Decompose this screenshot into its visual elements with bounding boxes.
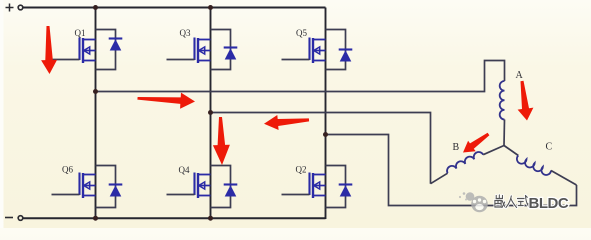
wire: phase A from Q1/Q6 node to winding A	[96, 61, 505, 92]
wire: phase C from Q5/Q2 node to winding C	[326, 135, 577, 206]
wire: winding B to star point	[483, 146, 504, 155]
wire: positive DC rail (top)	[23, 7, 326, 9]
svg-text:Q3: Q3	[180, 28, 191, 38]
junction dot phase C node	[323, 132, 328, 137]
wire: winding B outer lead	[431, 173, 448, 184]
wire: winding C outer lead	[551, 171, 577, 186]
red current arrow (right, along phase A wire)	[137, 93, 195, 109]
diode branch of Q1 (freewheeling diode)	[96, 30, 123, 70]
wire: phase-C leg bus (Q5/Q2)	[325, 8, 327, 220]
svg-text:Q4: Q4	[179, 165, 190, 175]
transistor Q5	[282, 38, 326, 64]
wire: star point to winding C	[504, 146, 518, 156]
wire: phase B from Q3/Q4 node to winding B	[211, 113, 431, 184]
wire: negative DC rail (bottom)	[23, 217, 326, 219]
junction dot phase A node	[93, 89, 98, 94]
svg-text:Q1: Q1	[75, 28, 86, 38]
winding C (inductor coil)	[517, 156, 551, 175]
transistor Q3	[167, 38, 211, 64]
red current arrow (down, into winding A)	[518, 81, 534, 121]
junction dot top rail / Q1 drain	[93, 5, 98, 10]
junction dot phase B node	[208, 110, 213, 115]
red current arrow (down, DC link current)	[41, 26, 57, 74]
svg-text:B: B	[453, 142, 460, 153]
svg-text:C: C	[546, 142, 553, 153]
red current arrow (left, along phase B wire)	[264, 115, 309, 130]
plus terminal of DC supply	[6, 4, 23, 12]
minus terminal of DC supply	[5, 216, 23, 221]
svg-text:Q2: Q2	[296, 165, 307, 175]
watermark logo (gray mascot)	[459, 192, 488, 212]
svg-text:Q5: Q5	[296, 28, 307, 38]
transistor Q2	[282, 173, 326, 199]
svg-text:A: A	[516, 70, 524, 81]
red current arrow (down-left, into winding B)	[463, 133, 489, 153]
diode branch of Q5 (freewheeling diode)	[326, 30, 353, 70]
wire: phase-A leg bus (Q1/Q6)	[95, 8, 97, 220]
diode branch of Q4 (freewheeling diode)	[211, 166, 238, 208]
red current arrow (down, into Q4)	[213, 117, 230, 165]
diode branch of Q2 (freewheeling diode)	[326, 166, 353, 208]
junction dot bottom rail / Q4 source	[208, 216, 213, 221]
transistor Q6	[52, 173, 96, 199]
junction dot bottom rail / Q6 source	[93, 216, 98, 221]
winding B (inductor coil)	[447, 152, 483, 173]
winding A (inductor coil)	[500, 81, 505, 119]
watermark text 嵌入式BLDC	[495, 195, 569, 212]
wire: phase-B leg bus (Q3/Q4)	[210, 8, 212, 220]
junction dot top rail / Q3 drain	[208, 5, 213, 10]
wire: winding A to star point	[503, 120, 506, 146]
diode branch of Q3 (freewheeling diode)	[211, 30, 238, 70]
svg-text:BLDC: BLDC	[529, 195, 569, 212]
svg-text:Q6: Q6	[62, 165, 73, 175]
transistor Q1	[52, 38, 96, 64]
transistor Q4	[167, 173, 211, 199]
diode branch of Q6 (freewheeling diode)	[96, 166, 123, 208]
